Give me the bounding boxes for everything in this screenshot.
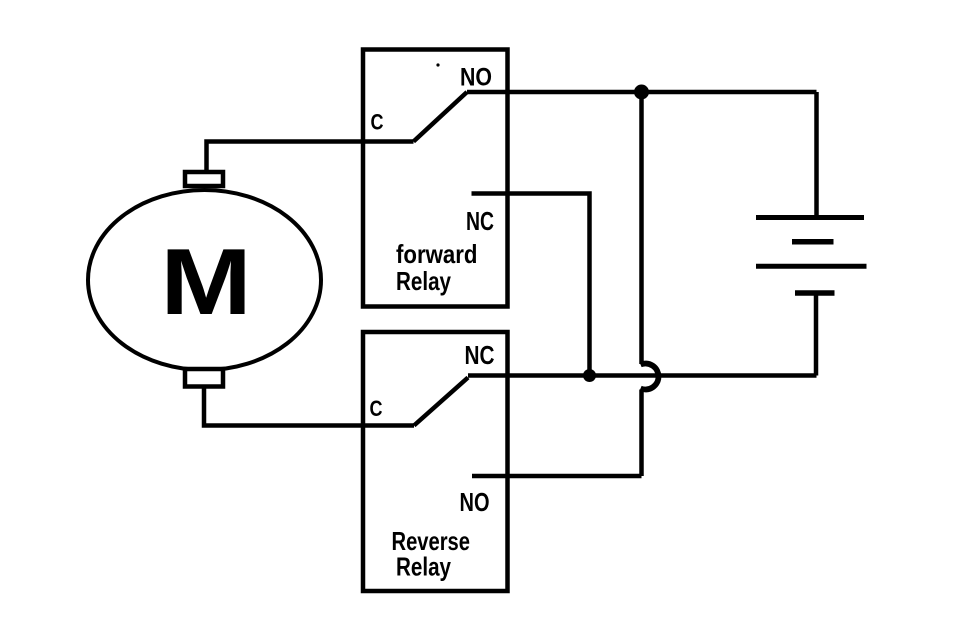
junction dot (top rail / right branch): [634, 85, 649, 100]
wire right vertical branch lower (hop to reverse NO): [639, 390, 644, 477]
wire motor top terminal to forward relay C: [207, 142, 414, 173]
wire reverse NC to battery negative (bottom rail): [468, 373, 817, 378]
reverse relay box: [363, 332, 508, 591]
wire battery positive lead: [814, 92, 819, 218]
svg-text:forward: forward: [396, 239, 478, 269]
wire motor bottom terminal to reverse relay C: [204, 387, 414, 426]
wire forward NC to junction on reverse NC rail: [472, 194, 590, 376]
battery plate short 2 (negative): [795, 290, 835, 296]
speck artifact above NO: [436, 63, 439, 66]
battery plate long 2 (positive): [756, 264, 867, 269]
battery plate short 1 (negative): [792, 239, 834, 245]
svg-text:C: C: [371, 110, 384, 135]
wire forward NO to battery positive (top rail): [467, 90, 817, 95]
junction dot (forward NC / reverse NC rail): [583, 369, 596, 382]
motor M (DC motor body): [88, 190, 321, 370]
svg-text:NC: NC: [465, 340, 495, 370]
battery plate long 1 (positive): [756, 215, 864, 220]
motor terminal top: [185, 172, 223, 186]
wire battery negative lead: [814, 293, 819, 376]
wire hop (vertical branch jumps over reverse NC rail): [641, 364, 659, 390]
motor terminal bottom: [185, 369, 223, 387]
reverse relay switch arm (C to NC): [414, 378, 468, 426]
svg-text:C: C: [370, 396, 383, 421]
wire right vertical branch upper (junction to wire hop): [639, 92, 644, 364]
svg-text:Relay: Relay: [396, 266, 451, 296]
svg-text:NC: NC: [466, 206, 494, 236]
svg-text:NO: NO: [460, 487, 490, 517]
forward relay box: [363, 50, 508, 307]
svg-text:Relay: Relay: [396, 552, 451, 582]
wire reverse NO to right vertical branch: [472, 474, 642, 479]
svg-text:M: M: [160, 229, 252, 335]
forward relay switch arm (C to NO): [414, 92, 468, 142]
svg-text:NO: NO: [460, 64, 492, 92]
